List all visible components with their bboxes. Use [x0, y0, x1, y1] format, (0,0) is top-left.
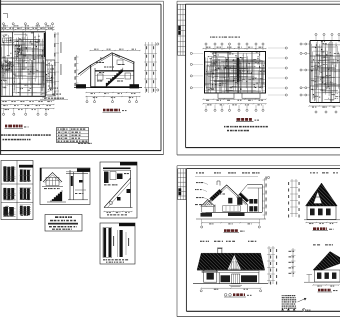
section 1-1 stair flight [106, 68, 123, 87]
sheet4 signature strip table [178, 169, 186, 200]
detail panel B stair detail [47, 190, 66, 202]
elevation 2 top labels [310, 172, 338, 173]
elevation 4 top labels [313, 244, 333, 245]
section 1-1 walls and floors [91, 53, 134, 88]
floor plan 1 body [0, 32, 55, 97]
elevation 1 right structure [248, 185, 263, 213]
notes box C [45, 215, 82, 232]
floor plan 2 left axis bubbles [190, 52, 203, 88]
floor plan 2 bottom dimension rows [202, 99, 266, 106]
elevation 3 right dimension column [267, 246, 277, 285]
elevation 2 body [304, 206, 340, 224]
section 1-1 roof outline [78, 53, 135, 76]
sheet4 outer border [177, 166, 340, 317]
elevation 3 center dormer [227, 255, 241, 270]
section 1-1 title [103, 109, 127, 113]
detail panel A cell 6 [20, 205, 32, 216]
elevation 1 wall and windows [206, 194, 262, 213]
detail panel D stair triangle [103, 170, 132, 215]
floor plan 2 bottom axis bubbles [205, 105, 264, 111]
elevation 3 top labels [200, 241, 256, 242]
detail panel D beam detail [103, 168, 131, 186]
floor plan 1 top dimension rows [0, 25, 55, 30]
sheet2 notes text [224, 126, 268, 131]
section 1-1 left dimension column [75, 55, 79, 86]
sheet4 inner frame [186, 169, 340, 312]
detail panel A cell 3 [3, 188, 16, 200]
sheet2 outer border [177, 1, 340, 155]
sheet1 outer border [0, 0, 164, 155]
elevation 1 right dimension column [263, 176, 270, 219]
floor plan 1 leader annotations [40, 88, 61, 99]
elevation 1 bottom dimension [201, 219, 261, 228]
sheet1 title block table [57, 128, 93, 145]
elevation 3 porch and windows [202, 271, 259, 284]
detail panel A cell 5 [3, 206, 16, 217]
floor plan 2 title [236, 118, 259, 122]
section 1-1 right dimension columns [144, 42, 159, 93]
elevation 4 house [304, 252, 340, 287]
elevation 1 left wing gable [201, 200, 215, 213]
floor plan 3 top axis bubbles [315, 33, 340, 40]
section 1-1 bottom dimensions [85, 92, 140, 98]
detail panel B section detail [66, 170, 88, 200]
sheet1 notes text [1, 134, 51, 140]
detail panel A cell 2 [20, 169, 32, 182]
sheet4 detail reference circle 1 [302, 309, 310, 312]
detail panel E frame [100, 223, 135, 264]
floor plan 2 right axis bubbles [268, 47, 287, 96]
detail panel B gable detail [42, 173, 63, 190]
elevation 4 left dimension stack [289, 248, 296, 277]
elevation 1 base hedges [196, 213, 266, 219]
plan 1 title [5, 125, 29, 129]
floor plan 3 left axis bubbles [300, 43, 310, 96]
floor plan 1 bottom dimension rows [0, 98, 68, 110]
elevation 3 main roof [197, 253, 265, 270]
elevation 4 title [318, 289, 338, 292]
section 1-1 axis bubbles [86, 96, 138, 103]
floor plan 1 right dimension column [54, 32, 61, 100]
detail panel D frame [100, 162, 137, 218]
sheet4 notes block [282, 295, 297, 310]
floor plan 2 top axis bubbles [205, 43, 264, 50]
elevation 1 left annotations [195, 182, 208, 207]
elevation 3 title [224, 293, 252, 297]
section 1-1 top dimension line [89, 49, 140, 51]
detail panel E wall bars [103, 228, 129, 263]
detail panel B frame [40, 168, 90, 205]
elevation 3 left wing [203, 264, 218, 282]
elevation 3 ground and steps [193, 284, 268, 287]
section 1-1 ground and footings [74, 84, 142, 88]
elevation 3 chimney [217, 248, 222, 255]
elevation 2 roof [306, 183, 338, 206]
floor plan 3 bottom dimensions [308, 105, 340, 113]
sheet2 signature strip table [178, 4, 186, 55]
floor plan 2 top dimension rows [202, 37, 266, 50]
floor plan 2 body [205, 52, 266, 99]
floor plan 1 bottom axis bubbles [2, 108, 47, 115]
sheet4 detail leader arrow [298, 298, 307, 302]
elevation 1 roof [206, 181, 249, 205]
elevation 2 title [313, 227, 334, 230]
elevation 3 bottom dimension [200, 288, 262, 292]
detail panel A cell 1 [3, 166, 16, 182]
sheet1 inner frame [0, 4, 161, 150]
elevation 1 title [224, 229, 245, 232]
detail panel A frame [1, 161, 33, 220]
elevation 1 top labels [195, 172, 260, 176]
elevation 2 left dimension column [288, 179, 300, 218]
floor plan 1 top axis bubbles [2, 23, 53, 31]
floor plan 3 body [310, 41, 340, 103]
floor plan 1 corner mark [3, 14, 8, 19]
sheet2 inner frame [186, 4, 340, 147]
detail panel A cell 4 [20, 188, 32, 200]
